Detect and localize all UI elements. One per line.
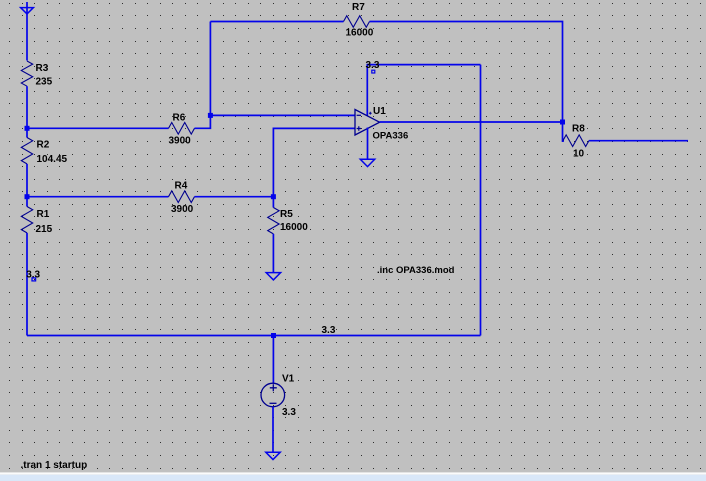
resistor R6 <box>169 123 195 135</box>
svg-text:V1: V1 <box>282 374 295 385</box>
ground flag top-left <box>21 8 34 14</box>
V1 plus mark <box>270 384 277 391</box>
wire node A horizontal to R6 <box>27 127 169 129</box>
svg-text:R4: R4 <box>175 181 188 192</box>
svg-text:3.3: 3.3 <box>322 325 336 336</box>
wire left rail top segment <box>26 2 28 61</box>
svg-text:3900: 3900 <box>171 204 194 215</box>
op-amp V- pin wire <box>367 128 369 160</box>
svg-text:3.3: 3.3 <box>26 270 40 281</box>
wire V1 bottom lead <box>272 407 274 452</box>
op-amp minus input mark <box>357 114 361 116</box>
voltage source V1 circle <box>261 383 285 407</box>
wire riser to R7 net <box>209 22 211 116</box>
junction node A (27,128) <box>25 126 30 131</box>
junction bottom rail to V1 (273.5,335.5) <box>271 333 276 338</box>
svg-text:R5: R5 <box>280 209 293 220</box>
wire op-amp output <box>380 121 563 123</box>
svg-text:3900: 3900 <box>169 136 192 147</box>
wire top rail left of R7 <box>210 21 343 23</box>
resistor R2 <box>21 138 32 164</box>
svg-text:16000: 16000 <box>346 28 374 39</box>
junction (273.4,196.7) <box>271 194 276 199</box>
resistor R8 <box>563 135 589 147</box>
wire bottom rail <box>27 335 481 337</box>
wire junction up and right to op-amp plus input <box>273 128 355 196</box>
ground below V1 <box>266 452 280 459</box>
wire V1 top lead <box>272 336 274 384</box>
svg-text:R1: R1 <box>37 209 50 220</box>
status bar blue strip <box>0 475 706 481</box>
op-amp V+ pin mark <box>369 112 372 115</box>
wire top of 3.3 net to op-amp V+ <box>367 65 480 116</box>
svg-text:10: 10 <box>573 149 585 160</box>
junction node B (27,197) <box>25 194 30 199</box>
resistor R3 <box>21 61 32 86</box>
svg-text:R7: R7 <box>352 2 365 13</box>
wire R8 output to right <box>589 140 688 142</box>
svg-text:.tran 1 startup: .tran 1 startup <box>21 460 88 471</box>
resistor R1 <box>21 207 32 233</box>
svg-text:104.45: 104.45 <box>37 154 68 165</box>
ground below R5 <box>266 273 280 280</box>
wire junction to op-amp minus input <box>210 114 355 116</box>
svg-text:3.3: 3.3 <box>282 407 296 418</box>
junction output (562.5,122) <box>560 120 565 125</box>
wire R5 to ground <box>272 234 274 273</box>
wire R4 to junction (273.4,196.7) <box>195 196 274 198</box>
svg-text:R6: R6 <box>173 113 186 124</box>
ground below op-amp <box>360 159 374 166</box>
wire R2 to node (27,197) <box>26 164 28 207</box>
wire top rail right of R7 <box>370 22 563 123</box>
wire R3 to node (27,128) <box>26 86 28 137</box>
svg-text:3.3: 3.3 <box>366 60 380 71</box>
svg-text:.inc OPA336.mod: .inc OPA336.mod <box>377 265 455 276</box>
svg-text:R2: R2 <box>37 140 50 151</box>
resistor R7 <box>344 16 370 28</box>
svg-text:U1: U1 <box>373 106 386 117</box>
net label anchor square left <box>32 278 36 281</box>
svg-text:R3: R3 <box>36 63 49 74</box>
svg-text:OPA336: OPA336 <box>373 131 409 142</box>
op-amp plus input mark <box>357 126 361 130</box>
wire right riser of 3.3 net <box>480 65 482 336</box>
status bar white separator <box>0 472 706 474</box>
wire node B horizontal to R4 <box>27 196 169 198</box>
resistor R5 <box>268 208 279 234</box>
V1 minus mark <box>270 402 277 404</box>
svg-text:R8: R8 <box>572 124 585 135</box>
svg-text:16000: 16000 <box>280 222 308 233</box>
wire junction down to R5 <box>272 197 274 208</box>
wire left rail bottom to corner <box>26 233 28 336</box>
wire output junction down to R8 <box>563 122 565 141</box>
svg-text:215: 215 <box>36 224 53 235</box>
svg-text:235: 235 <box>36 77 53 88</box>
net label anchor square at op-amp <box>372 70 375 73</box>
junction (210,115.4) <box>208 113 213 118</box>
wire R6 to jog corner <box>195 115 211 128</box>
resistor R4 <box>169 191 195 203</box>
op-amp U1 triangle <box>355 110 380 136</box>
